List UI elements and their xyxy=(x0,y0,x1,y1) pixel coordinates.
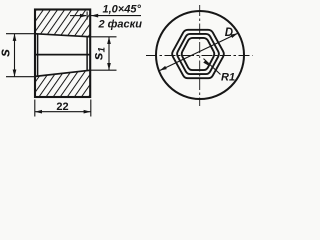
end view: outer circle xyxy=(156,11,244,99)
dimension s1: bottom arrowhead xyxy=(107,63,111,70)
chamfer dim: leader shelf line xyxy=(91,15,141,17)
part outline: outer rectangle of bushing section xyxy=(35,10,90,98)
centerline vertical xyxy=(199,5,201,106)
svg-text:2 фаски: 2 фаски xyxy=(98,18,143,30)
dimension D: diagonal dimension line xyxy=(160,33,238,70)
chamfer dim: inner arrowhead pointing right xyxy=(80,14,87,18)
hole upper edge (tapered) xyxy=(34,34,90,37)
hatching: bottom band of section xyxy=(35,70,90,97)
dimension s: dimension line xyxy=(14,34,16,77)
hex hole middle edge line xyxy=(34,54,90,56)
hex hole outer hexagon (big end) xyxy=(172,30,224,78)
chamfer extension line above xyxy=(86,12,88,20)
dimension D: lower-left arrowhead on circle xyxy=(160,66,167,71)
dimension 22: dimension line xyxy=(35,111,91,113)
chamfer dim: outer arrowhead pointing left xyxy=(91,14,98,18)
dimension s1: dimension line xyxy=(108,37,110,70)
dimension s: bottom arrowhead xyxy=(13,70,17,77)
dimension 22: left extension line xyxy=(34,100,36,117)
chamfer dim: inner arrow line xyxy=(70,15,86,17)
dimension 22: right arrowhead xyxy=(84,110,91,114)
dimension 22: right extension line xyxy=(90,100,92,117)
svg-text:R1: R1 xyxy=(221,71,235,83)
dimension s1: top extension line xyxy=(91,36,117,38)
hole lower edge (tapered) xyxy=(34,70,90,76)
svg-text:1,0×45°: 1,0×45° xyxy=(103,3,142,15)
svg-text:22: 22 xyxy=(56,101,68,113)
dimension s1: top arrowhead xyxy=(107,37,111,44)
dimension s: top extension line xyxy=(6,33,36,35)
dimension 22: left arrowhead xyxy=(35,110,42,114)
dimension D: upper-right arrowhead on circle xyxy=(231,33,238,38)
dimension s: top arrowhead xyxy=(13,34,17,41)
hex hole middle hexagon xyxy=(177,34,219,74)
svg-text:s: s xyxy=(0,49,13,57)
hatching: top band of section xyxy=(35,10,90,37)
centerline horizontal xyxy=(146,55,253,57)
right face chamfer line xyxy=(86,37,88,70)
dimension s1: bottom extension line xyxy=(91,69,117,71)
left face chamfer line xyxy=(37,34,39,76)
radius R1: leader line from center outward xyxy=(204,59,221,75)
dimension s: bottom extension line xyxy=(6,76,36,78)
hex hole inner hexagon (small end) xyxy=(182,38,215,70)
radius R1: arrowhead at hex corner xyxy=(203,60,210,66)
svg-text:D: D xyxy=(225,27,233,39)
